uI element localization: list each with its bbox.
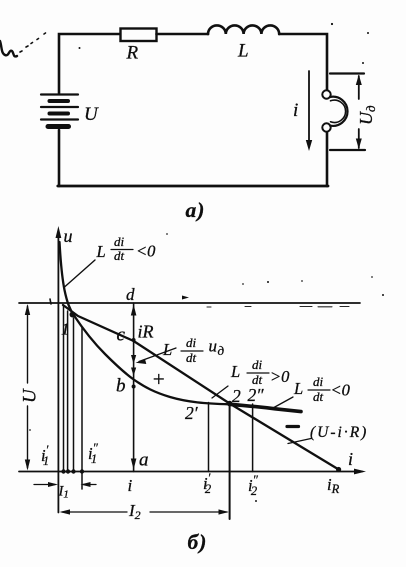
svg-text:di: di [313, 374, 324, 389]
svg-text:Uд: Uд [356, 105, 378, 125]
svg-text:iR: iR [138, 322, 154, 342]
svg-text:c: c [117, 325, 126, 346]
U level line through d [19, 302, 360, 304]
load line (U - iR) [63, 305, 340, 470]
svg-text:2′: 2′ [185, 403, 199, 423]
svg-text:I2: I2 [128, 501, 141, 522]
i axis [19, 471, 362, 473]
I1 dimension [34, 484, 55, 486]
svg-text:i: i [128, 476, 133, 495]
scan artifact squiggle top-left [0, 41, 17, 56]
svg-text:d: d [126, 285, 135, 304]
U dimension left [27, 306, 29, 468]
svg-text:<0: <0 [136, 242, 156, 261]
svg-text:2: 2 [232, 386, 241, 406]
svg-text:L: L [230, 362, 240, 381]
svg-text:a: a [139, 450, 149, 471]
svg-text:uд: uд [209, 337, 225, 359]
svg-text:L: L [293, 379, 303, 398]
wire: battery to bottom-left corner [58, 130, 61, 186]
svg-text:L: L [237, 41, 249, 62]
arc crescent [330, 97, 348, 126]
arc device electrodes [322, 90, 330, 98]
svg-text:dt: dt [114, 248, 125, 263]
wire: top-left corner to resistor [59, 34, 120, 93]
tick marks on U level line [182, 296, 189, 300]
svg-text:di: di [186, 335, 197, 350]
resistor R [121, 29, 157, 42]
battery U [41, 95, 78, 127]
current arrow i [308, 71, 310, 144]
vertical i2' [208, 403, 210, 472]
svg-text:i′2: i′2 [203, 471, 211, 496]
svg-text:б): б) [188, 530, 208, 554]
svg-text:dt: dt [313, 389, 324, 404]
svg-text:(U-i·R): (U-i·R) [310, 424, 368, 441]
svg-text:i: i [348, 449, 353, 469]
svg-text:I1: I1 [58, 484, 69, 501]
arc characteristic curve [60, 242, 230, 404]
svg-text:>0: >0 [270, 367, 290, 386]
iR dot [336, 467, 341, 472]
point 1 blob [70, 312, 76, 318]
svg-text:i: i [293, 100, 298, 121]
minus sign [287, 425, 299, 428]
svg-text:U: U [20, 388, 41, 403]
vertical i2'' [252, 404, 254, 472]
svg-text:L: L [96, 242, 106, 261]
wire: resistor to inductor [157, 33, 209, 36]
I2 dimension [62, 511, 227, 513]
svg-text:u: u [64, 226, 73, 246]
svg-text:i′1: i′1 [41, 443, 49, 468]
point 2 dot [227, 401, 233, 407]
wire: arc to bottom-right corner [326, 133, 329, 186]
svg-text:dt: dt [186, 350, 197, 365]
svg-text:<0: <0 [331, 381, 351, 400]
wire: inductor to top-right corner, down to arc [279, 34, 327, 90]
svg-text:di: di [252, 357, 263, 372]
voltage Ud bracket [330, 72, 364, 74]
scan specks [79, 47, 81, 49]
inductor L [208, 25, 279, 34]
svg-text:2″: 2″ [248, 385, 265, 405]
svg-text:R: R [126, 43, 139, 64]
svg-text:+: + [152, 367, 166, 391]
thin verticals i1 [63, 306, 65, 472]
wire: bottom [58, 185, 328, 188]
svg-text:b: b [116, 376, 126, 397]
u axis [57, 231, 59, 513]
vertical at point 2 [229, 404, 231, 520]
svg-text:di: di [114, 234, 125, 249]
vertical line at i (abcd) [133, 303, 135, 472]
svg-text:iR: iR [327, 475, 340, 496]
svg-text:U: U [84, 104, 99, 125]
top label L di/dt < 0 [96, 234, 157, 263]
svg-text:а): а) [186, 198, 206, 222]
svg-text:i″2: i″2 [248, 473, 259, 498]
svg-text:i″1: i″1 [88, 441, 99, 466]
